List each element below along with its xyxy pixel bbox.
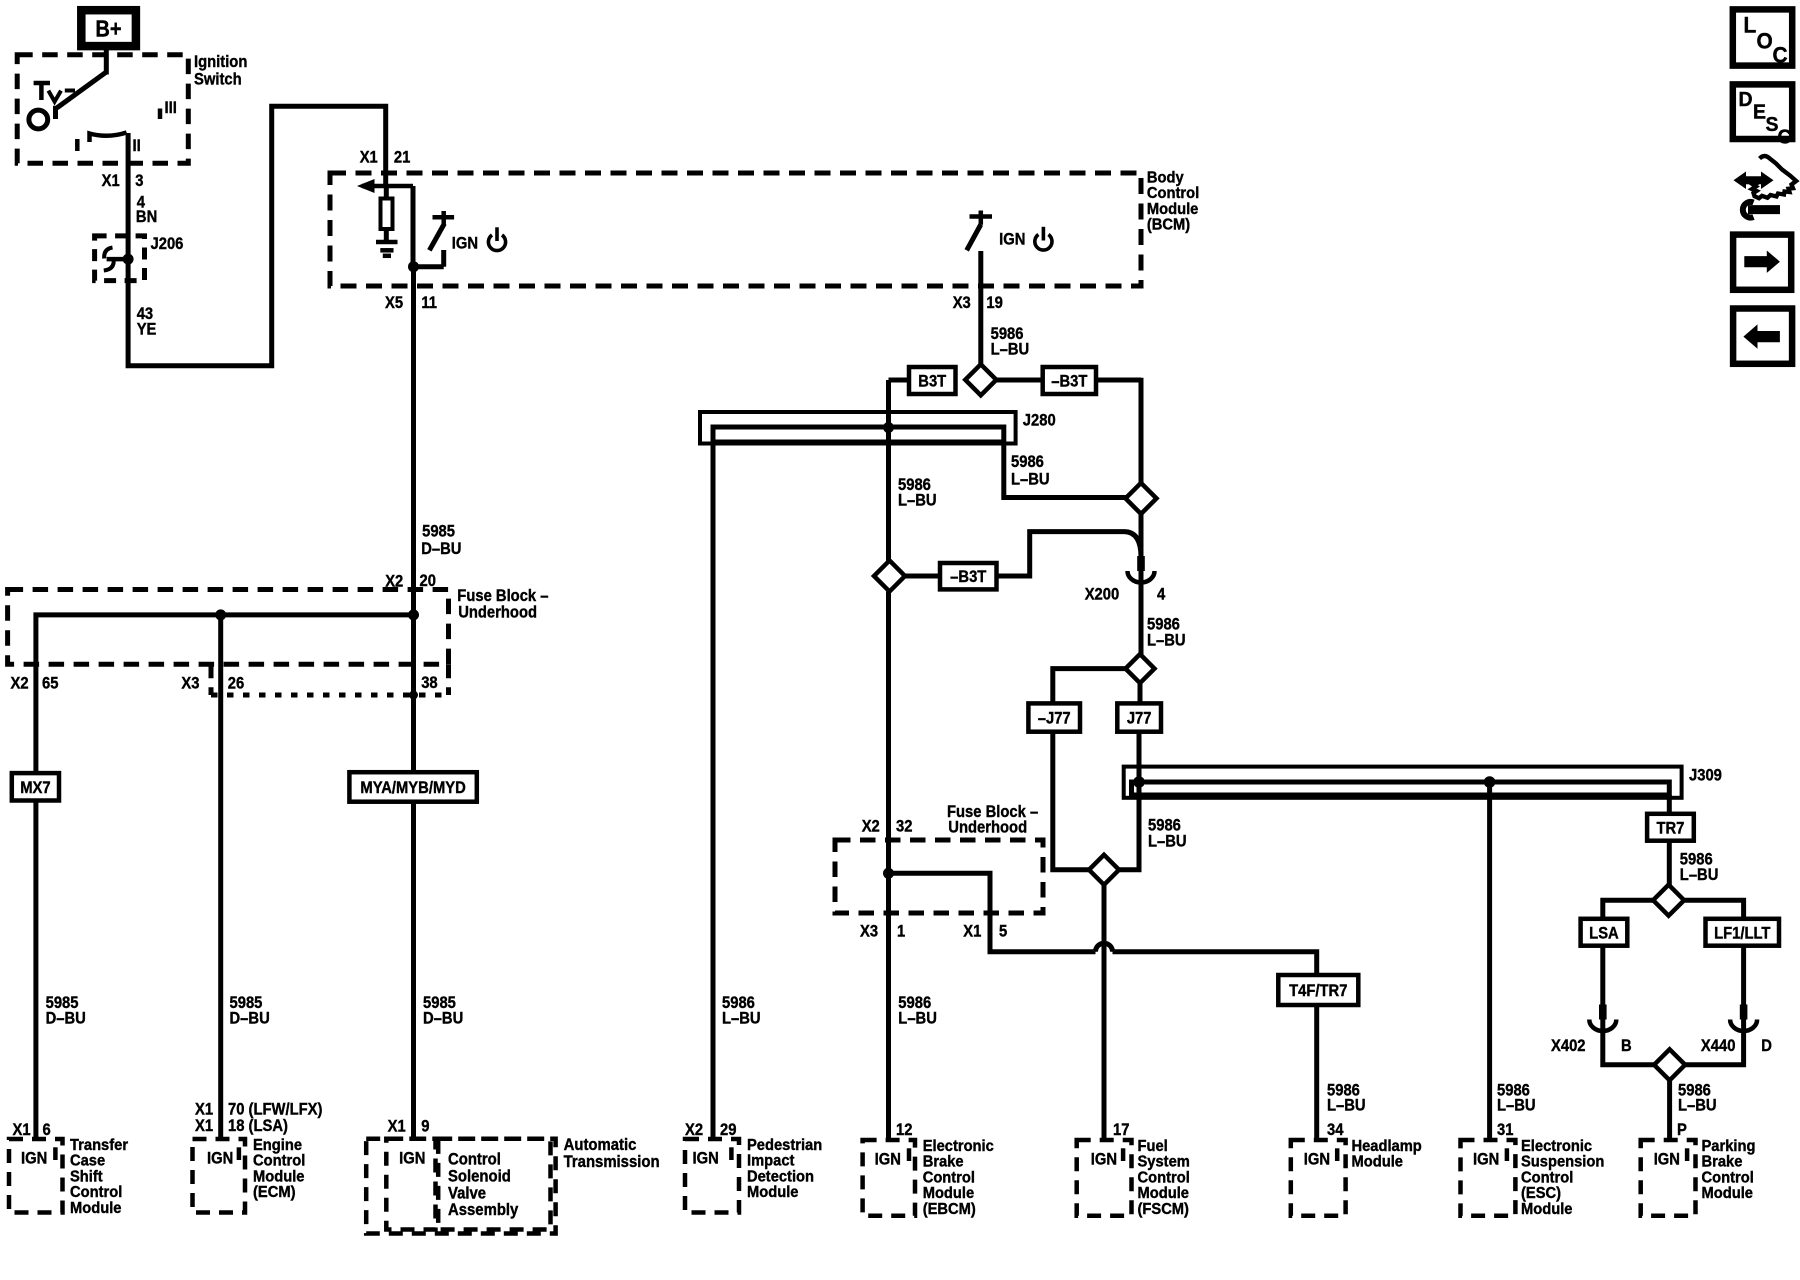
svg-text:L–BU: L–BU (898, 1009, 937, 1027)
wire label 5985 D-BU (MX7) (46, 994, 86, 1027)
svg-text:Underhood: Underhood (458, 604, 537, 622)
svg-text:Module: Module (1521, 1200, 1573, 1218)
pedestrian impact detection module box (685, 1139, 739, 1213)
parking brake control module box (1641, 1140, 1696, 1216)
ignition switch pivot (29, 110, 48, 129)
svg-text:LSA: LSA (1589, 924, 1619, 942)
splice S5 (1089, 855, 1119, 885)
fusible link B3T (889, 367, 956, 394)
svg-text:L–BU: L–BU (1678, 1097, 1717, 1115)
fusible link -B3T lower (905, 563, 997, 589)
fuse TR7 (1647, 814, 1694, 841)
automatic transmission label (564, 1137, 660, 1171)
splice J206 (95, 235, 184, 281)
wire fuse block X3-26 to ECM (218, 615, 223, 1140)
pin label X1 21 (BCM) (360, 148, 411, 166)
svg-text:IGN: IGN (452, 235, 478, 253)
svg-text:1: 1 (897, 923, 905, 941)
pin label X2 29 (pedestrian) (685, 1121, 737, 1139)
fuse block underhood label (left) (457, 587, 548, 622)
svg-text:B: B (1621, 1037, 1632, 1055)
svg-text:Module: Module (1352, 1153, 1404, 1171)
svg-text:26: 26 (228, 675, 245, 693)
wire J309 to ESC module (1487, 782, 1492, 1140)
svg-text:X1: X1 (195, 1117, 213, 1135)
ignition switch module box (17, 55, 188, 164)
wire label 5986 L-BU (parking brake) (1678, 1082, 1717, 1115)
wire splice S4 to fuse J77 (1138, 683, 1143, 703)
electronic brake control module label (923, 1137, 995, 1217)
BCM pull-down resistor (381, 186, 393, 242)
BCM ignition sense branch wire (408, 186, 444, 272)
control solenoid valve assembly box (438, 1139, 550, 1230)
transfer case shift control module box (9, 1139, 63, 1213)
svg-text:20: 20 (420, 572, 437, 590)
fuse LSA (1581, 919, 1628, 946)
svg-text:II: II (133, 137, 141, 155)
wire label 5986 L-BU (ESC) (1497, 1082, 1536, 1115)
svg-text:9: 9 (421, 1118, 429, 1136)
sidebar back arrow button (1733, 309, 1792, 364)
wire label 5986 L-BU (J77 to S5) (1148, 817, 1187, 851)
wire label 5985 D-BU (ECM) (230, 994, 270, 1027)
connector J309 (1124, 767, 1722, 798)
svg-text:–B3T: –B3T (950, 568, 986, 586)
svg-text:T4F/TR7: T4F/TR7 (1289, 982, 1347, 1000)
wire splice S6 to LF1/LLT (1684, 900, 1744, 919)
transmission IGN pin box (386, 1139, 435, 1230)
svg-text:17: 17 (1113, 1121, 1130, 1139)
wire label 5985 D-BU (BCM to fuse block) (421, 523, 461, 558)
sidebar harness routing icon (1734, 156, 1797, 218)
svg-text:B+: B+ (95, 15, 121, 42)
wire label 5986 L-BU (EBCM) (898, 994, 937, 1027)
engine control module box (193, 1139, 246, 1213)
svg-text:D–BU: D–BU (230, 1009, 270, 1027)
headlamp module label (1352, 1137, 1422, 1170)
automatic transmission box (366, 1139, 555, 1234)
pin label X2 65 (11, 675, 59, 693)
pedestrian impact detection module label (747, 1136, 822, 1201)
svg-text:L–BU: L–BU (898, 492, 937, 510)
svg-text:–J77: –J77 (1038, 710, 1071, 728)
svg-text:(EBCM): (EBCM) (923, 1200, 976, 1218)
wire splice S3 to fuse block X2-32 (886, 592, 891, 874)
pin label X3 1 (860, 923, 905, 941)
svg-text:38: 38 (421, 674, 438, 692)
wire label 5986 L-BU (B3T branch) (898, 476, 937, 510)
svg-text:70 (LFW/LFX): 70 (LFW/LFX) (228, 1101, 322, 1119)
ignition switch output contact (90, 133, 127, 143)
pin label 17 (FSCM) (1113, 1121, 1130, 1139)
pin label 34 (headlamp) (1327, 1121, 1344, 1139)
wire J309 to TR7 (1667, 795, 1672, 814)
svg-text:Automatic: Automatic (564, 1137, 637, 1155)
splice S3 (874, 561, 905, 592)
wire splice S5 to FSCM pin 17 (1102, 885, 1107, 1140)
svg-text:5986: 5986 (1011, 453, 1044, 471)
body control module box (330, 173, 1141, 286)
svg-text:X2: X2 (862, 818, 880, 836)
wire -J77 to splice S5 (1053, 732, 1090, 870)
svg-text:L–BU: L–BU (1680, 866, 1719, 884)
fuse block internal bus (left) (36, 609, 419, 664)
svg-text:D: D (1739, 89, 1753, 112)
fuel system control module box (1077, 1140, 1132, 1216)
svg-text:Assembly: Assembly (448, 1202, 519, 1220)
wire MX7 to transfer case module (33, 801, 38, 1141)
pin label P (parking brake) (1677, 1121, 1687, 1139)
BCM left IGN switch contact (429, 211, 454, 250)
engine control module label (253, 1136, 305, 1201)
wire fuse block X3-1 to EBCM pin 12 (886, 873, 891, 1140)
wire label 43 YE (137, 305, 157, 338)
electronic suspension control module label (1521, 1137, 1604, 1217)
svg-text:4: 4 (1157, 586, 1165, 604)
svg-text:B3T: B3T (918, 373, 946, 391)
electronic brake control module box (863, 1140, 915, 1216)
svg-text:IGN: IGN (999, 231, 1025, 249)
inline connector X440 (1730, 1005, 1757, 1032)
power feed terminal B+ (81, 10, 136, 46)
svg-text:IGN: IGN (875, 1151, 901, 1169)
svg-text:Control: Control (448, 1151, 501, 1169)
fuse LF1/LLT (1706, 919, 1780, 946)
transfer case shift control module label (70, 1136, 128, 1216)
wire -B3T lower to main riser (997, 532, 1142, 576)
fuse T4F/TR7 (1278, 975, 1358, 1005)
sidebar LOC button (1733, 9, 1792, 67)
svg-text:Module: Module (1702, 1185, 1754, 1203)
sidebar DESC button (1733, 84, 1792, 148)
pin label 38 (421, 674, 438, 692)
pin label X1 3 (ignition switch) (102, 172, 144, 190)
wire T4F/TR7 to headlamp module (1314, 1005, 1319, 1140)
splice S6 (1653, 885, 1684, 916)
pin label X1 70 X1 18 (ECM) (195, 1101, 322, 1136)
sidebar next arrow button (1733, 235, 1791, 290)
ignition switch label (194, 53, 247, 88)
svg-text:31: 31 (1497, 1121, 1514, 1139)
svg-text:III: III (165, 99, 177, 117)
svg-text:X440: X440 (1701, 1037, 1736, 1055)
svg-text:IGN: IGN (1654, 1151, 1680, 1169)
svg-text:D–BU: D–BU (421, 540, 461, 558)
fuse MYA/MYB/MYD (349, 772, 476, 802)
wire ignition switch X1-3 to BCM X1-21 (128, 106, 386, 365)
svg-text:L–BU: L–BU (991, 341, 1030, 359)
svg-text:–B3T: –B3T (1051, 373, 1087, 391)
wire BCM X3-19 to splice S1 (978, 251, 983, 365)
svg-text:X200: X200 (1085, 586, 1120, 604)
svg-text:X1: X1 (13, 1121, 31, 1139)
svg-text:O: O (1757, 29, 1773, 54)
wire fuse block to MX7 (33, 664, 38, 773)
pin label X3 26 (181, 675, 244, 693)
svg-text:L–BU: L–BU (1327, 1097, 1366, 1115)
svg-text:IGN: IGN (21, 1150, 47, 1168)
svg-text:X5: X5 (385, 294, 403, 312)
wire X440 to splice S7 (1685, 1020, 1744, 1065)
svg-text:65: 65 (42, 675, 59, 693)
svg-text:P: P (1677, 1121, 1687, 1139)
fuse block underhood box (left) (8, 590, 449, 696)
BCM internal ground (376, 242, 398, 256)
svg-text:J280: J280 (1023, 412, 1056, 430)
fusible link -B3T upper (997, 367, 1142, 394)
pin label 31 (ESC) (1497, 1121, 1514, 1139)
svg-text:X2: X2 (11, 675, 29, 693)
wire J280 to splice S2 (1004, 444, 1127, 498)
svg-text:19: 19 (986, 294, 1003, 312)
connector J280 (700, 412, 1056, 444)
fuse block internal bus (middle) (883, 868, 990, 913)
svg-text:YE: YE (137, 321, 157, 339)
svg-text:X1: X1 (102, 172, 120, 190)
junction J77 wire on J309 (1133, 776, 1145, 788)
svg-text:11: 11 (421, 294, 437, 312)
svg-text:J206: J206 (151, 235, 184, 253)
svg-text:(ECM): (ECM) (253, 1184, 295, 1202)
wire label 5986 L-BU (TR7) (1680, 851, 1719, 884)
svg-text:X1: X1 (195, 1101, 213, 1119)
wire J77 through J309 to splice S5 (1119, 732, 1140, 870)
wire label 5986 L-BU (pedestrian) (722, 994, 761, 1027)
wire X402 to splice S7 (1603, 1020, 1654, 1065)
pin label X1 9 (transmission) (388, 1118, 430, 1136)
svg-text:X1: X1 (360, 148, 378, 166)
wire label 5986 L-BU (J280 right) (1011, 453, 1050, 489)
wire MYA/MYB/MYD to control solenoid valve assembly (411, 802, 416, 1140)
svg-text:6: 6 (43, 1121, 51, 1139)
svg-text:Transmission: Transmission (564, 1153, 660, 1171)
fuse MX7 (12, 773, 59, 800)
svg-text:Module: Module (70, 1199, 122, 1217)
svg-text:Solenoid: Solenoid (448, 1168, 511, 1186)
BCM right IGN switch contact (967, 211, 992, 251)
wire LSA to connector X402 (1600, 946, 1605, 1007)
wire B+ to ignition switch blade (56, 44, 107, 119)
pin label X402 B (1551, 1037, 1632, 1055)
svg-text:3: 3 (135, 172, 143, 190)
wire -B3T to splice S2 (1139, 378, 1144, 484)
svg-text:J77: J77 (1127, 710, 1152, 728)
svg-text:IGN: IGN (693, 1150, 719, 1168)
svg-text:MYA/MYB/MYD: MYA/MYB/MYD (360, 779, 465, 797)
svg-text:34: 34 (1327, 1121, 1344, 1139)
wire splice S4 to fuse -J77 (1053, 669, 1126, 704)
svg-text:L–BU: L–BU (1147, 631, 1186, 649)
svg-text:L: L (1744, 13, 1757, 38)
wire splice S6 to LSA (1603, 900, 1653, 919)
pin label X5 11 (BCM) (385, 294, 437, 312)
svg-text:X2: X2 (385, 573, 403, 591)
svg-text:X3: X3 (860, 923, 878, 941)
wire fuse block 38 to MYA/MYB/MYD (409, 615, 418, 772)
headlamp module box (1291, 1140, 1346, 1216)
wire LF1/LLT to connector X440 (1741, 946, 1746, 1007)
wire label 5985 D-BU (solenoid) (423, 994, 463, 1027)
svg-text:D: D (1761, 1037, 1772, 1055)
svg-text:Ignition: Ignition (194, 53, 247, 71)
pin label X200 4 (1085, 586, 1166, 604)
wire TR7 to splice S6 (1667, 841, 1672, 886)
control solenoid valve assembly label (448, 1151, 519, 1219)
svg-text:X402: X402 (1551, 1037, 1586, 1055)
junction ESC wire on J309 (1484, 776, 1496, 788)
svg-text:C: C (1773, 43, 1788, 68)
svg-text:Underhood: Underhood (948, 819, 1027, 837)
svg-text:D–BU: D–BU (423, 1009, 463, 1027)
fuel system control module label (1138, 1137, 1190, 1217)
wire label 5986 L-BU (BCM X3-19) (991, 325, 1030, 359)
wire label 4 BN (136, 194, 157, 227)
svg-text:X2: X2 (685, 1121, 703, 1139)
wire splice S2 to X200 (1139, 514, 1144, 572)
body control module label (1147, 169, 1199, 234)
svg-text:J309: J309 (1689, 767, 1722, 785)
pin label X440 D (1701, 1037, 1772, 1055)
svg-text:D–BU: D–BU (46, 1009, 86, 1027)
svg-text:IGN: IGN (399, 1150, 425, 1168)
splice S4 (1126, 654, 1155, 683)
svg-text:12: 12 (896, 1121, 913, 1139)
BCM right IGN label and power symbol (999, 227, 1052, 250)
svg-text:5985: 5985 (422, 523, 455, 541)
svg-text:L–BU: L–BU (1011, 471, 1050, 489)
fuse -J77 (1028, 703, 1080, 731)
splice S2 (1126, 483, 1157, 514)
wire X200 to splice S4 (1139, 571, 1144, 655)
parking brake control module label (1702, 1137, 1756, 1202)
svg-text:(FSCM): (FSCM) (1138, 1200, 1189, 1218)
pin label 12 (EBCM) (896, 1121, 913, 1139)
wire B3T through J280 to splice S3 (886, 380, 891, 561)
svg-text:L–BU: L–BU (1497, 1097, 1536, 1115)
inline connector X200 (1128, 556, 1155, 583)
svg-text:TR7: TR7 (1656, 819, 1684, 837)
pin label X1 5 (963, 923, 1007, 941)
svg-text:32: 32 (896, 818, 913, 836)
svg-text:IGN: IGN (1091, 1151, 1117, 1169)
svg-text:X3: X3 (181, 675, 199, 693)
svg-text:X1: X1 (388, 1118, 406, 1136)
svg-text:X1: X1 (963, 923, 981, 941)
svg-text:IGN: IGN (207, 1150, 233, 1168)
svg-text:BN: BN (136, 208, 157, 226)
BCM left IGN label and power symbol (452, 227, 506, 252)
svg-text:5: 5 (999, 923, 1007, 941)
wire fuse block X1-5 to T4F/TR7 (990, 913, 1317, 975)
pin label X3 19 (BCM) (953, 294, 1003, 312)
splice S7 (1654, 1049, 1685, 1080)
inline connector X402 (1589, 1005, 1616, 1032)
svg-text:(BCM): (BCM) (1147, 216, 1190, 234)
svg-text:L–BU: L–BU (1148, 833, 1187, 851)
fuse block underhood label (middle) (947, 803, 1038, 837)
svg-text:Switch: Switch (194, 70, 242, 88)
svg-text:LF1/LLT: LF1/LLT (1714, 924, 1771, 942)
svg-text:Valve: Valve (448, 1185, 486, 1203)
wire label 5986 L-BU (X200) (1147, 616, 1186, 650)
svg-text:C: C (1778, 126, 1792, 149)
svg-text:21: 21 (394, 148, 411, 166)
pin label X1 6 (transfer case) (13, 1121, 51, 1139)
wire splice S7 to parking brake module (1667, 1080, 1672, 1140)
pin label X2 20 (fuse block top) (385, 572, 436, 591)
svg-text:29: 29 (720, 1121, 737, 1139)
svg-text:IGN: IGN (1304, 1151, 1330, 1169)
wire BCM X5-11 to fuse block X2-20 (411, 267, 416, 615)
svg-text:X3: X3 (953, 294, 971, 312)
svg-text:MX7: MX7 (20, 779, 51, 797)
splice S1 (965, 364, 996, 395)
svg-text:S: S (1766, 114, 1779, 137)
svg-text:L–BU: L–BU (722, 1009, 761, 1027)
svg-text:IGN: IGN (1473, 1151, 1499, 1169)
svg-text:18 (LSA): 18 (LSA) (228, 1117, 288, 1135)
BCM input arrow (357, 179, 413, 193)
electronic suspension control module box (1461, 1140, 1516, 1216)
pin label X2 32 (862, 818, 913, 836)
wire J280 to pedestrian impact module (711, 444, 716, 1141)
fuse J77 (1117, 703, 1161, 731)
svg-text:Module: Module (747, 1184, 799, 1202)
ignition switch position marks (34, 83, 177, 155)
fuse block underhood box (middle) (835, 840, 1043, 913)
svg-text:E: E (1753, 101, 1766, 124)
wire label 5986 L-BU (headlamp) (1327, 1082, 1366, 1115)
